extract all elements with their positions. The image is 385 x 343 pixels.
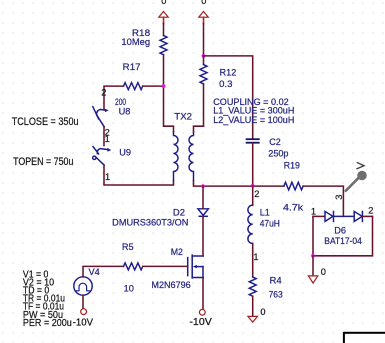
svg-text:BAT17-04: BAT17-04 [324,236,362,246]
wire main node to D2 anode [202,186,204,209]
svg-text:R5: R5 [122,242,134,252]
wire D6 pin 2 stub [362,215,372,217]
wire R5 to M2 gate [143,265,188,267]
probe marker stick [346,177,360,191]
wire L1 pin 1 to R4 [252,244,254,278]
svg-text:0: 0 [161,0,166,6]
wire C2 bottom plate to main node row [252,143,254,186]
svg-text:R4: R4 [270,275,282,285]
wire V4 minus to -10V bubble [82,295,84,309]
svg-text:PER = 200u: PER = 200u [23,318,72,329]
ground symbol under D6 [308,276,317,283]
resistor R4 [249,277,256,296]
wire R17 right to node junction [143,85,164,87]
wire R18 down to TX2 primary top [164,55,174,132]
svg-text:D6: D6 [334,226,346,236]
svg-text:1: 1 [253,252,258,262]
box D6 package outline [313,216,373,255]
resistor R17 [124,83,143,90]
resistor R18 [160,36,167,55]
capacitor C2 [247,139,259,143]
wire R4 to ground [252,296,254,316]
ground symbol under R4 [248,316,258,322]
svg-text:M2N6796: M2N6796 [151,280,190,290]
wire V4 plus to R5 [83,266,124,276]
diode D6b [354,211,362,221]
svg-text:763: 763 [269,289,283,299]
power symbol node 0 (left, above R18) [159,11,168,17]
resistor R19 [284,182,303,190]
wire TX2 secondary bottom to main node [194,181,204,187]
svg-text:-10V: -10V [189,317,212,328]
switch U8 [93,107,109,127]
wire D2 cathode to M2 drain [202,217,204,257]
svg-text:M2: M2 [171,247,183,257]
wire power arrow down [203,17,205,24]
node junction at L1 pin 2 [251,184,255,188]
resistor R5 [124,263,143,270]
svg-text:R19: R19 [284,161,300,171]
wire main node row [203,185,284,187]
diode D2 [198,209,209,217]
svg-text:47uH: 47uH [260,218,280,228]
svg-text:10: 10 [124,284,134,294]
node junction R17/R18/TX2 [162,84,166,88]
svg-text:TX2: TX2 [174,112,192,122]
wire U9 pin 1 down and right to TX2 primary bottom [104,165,174,185]
svg-text:1: 1 [105,134,110,144]
svg-text:0: 0 [260,307,265,317]
source V4 pulse waveform glyph [76,283,89,291]
power symbol node 0 (right, above R12) [199,11,208,17]
node junction at D2 anode [201,184,205,188]
wire junction right and down to C2 top plate [204,56,253,139]
svg-text:R17: R17 [123,62,141,72]
wire M2 source to -10V bubble [202,278,204,310]
wire R19 right then down to D6 pin 3 [303,186,343,216]
svg-text:2: 2 [101,88,106,98]
node junction top of R12 / C2 branch [202,54,206,58]
wire D6 pin 1 stub [313,215,325,217]
diode D6a [325,211,354,221]
svg-text:10Meg: 10Meg [121,37,150,47]
wire D6 corner down to ground [312,256,314,276]
source V4 body [74,277,92,295]
inductor L1 [248,205,253,243]
wire power arrow to R18 pin 1 [163,17,165,24]
node junction D6 box corner to ground [311,254,315,258]
wire TX2 secondary top to R12 column [194,126,204,132]
svg-text:R12: R12 [220,68,237,78]
svg-text:0: 0 [201,0,206,6]
transformer TX2 primary winding [174,132,179,181]
svg-text:D2: D2 [173,208,185,218]
wire U8 pin 1 to U9 pin 2 [103,127,105,146]
net bubble -10V (V4) [81,309,87,315]
svg-text:250p: 250p [268,148,288,158]
wire continuing to R18 [163,24,165,36]
svg-text:C2: C2 [269,137,281,147]
svg-text:3: 3 [334,195,344,200]
svg-text:V4: V4 [89,267,100,277]
svg-text:4.7k: 4.7k [283,202,304,212]
svg-text:U8: U8 [119,107,131,117]
svg-text:L1: L1 [260,207,270,217]
title block corner [344,333,385,343]
svg-text:TOPEN = 750u: TOPEN = 750u [13,156,73,168]
svg-text:-10V: -10V [73,317,94,328]
svg-text:0: 0 [321,267,326,277]
probe marker head [357,171,367,181]
svg-text:TCLOSE = 350u: TCLOSE = 350u [12,116,79,128]
wire R17 left to switch U8 pin 2 [104,86,124,109]
wire main node to L1 pin 2 [252,186,254,205]
svg-text:L2_VALUE = 100uH: L2_VALUE = 100uH [213,115,294,125]
switch U9 [93,147,112,166]
svg-text:DMURS360T3/ON: DMURS360T3/ON [112,218,188,228]
wire continuing down to junction [203,24,205,56]
svg-text:2: 2 [368,206,373,216]
probe marker chevron [357,163,364,169]
svg-text:1: 1 [311,207,316,217]
wire R12 bottom down to TX2 secondary top [203,84,205,126]
svg-text:U9: U9 [119,148,131,158]
net bubble -10V (M2 source) [199,309,205,315]
wire junction to R12 top [203,56,205,65]
svg-text:0.3: 0.3 [219,79,232,89]
svg-text:2: 2 [254,189,259,199]
transistor M2 [188,255,203,278]
svg-text:1: 1 [105,172,110,182]
transformer TX2 secondary winding [189,132,194,181]
resistor R12 [200,65,207,85]
svg-text:200: 200 [115,97,126,107]
